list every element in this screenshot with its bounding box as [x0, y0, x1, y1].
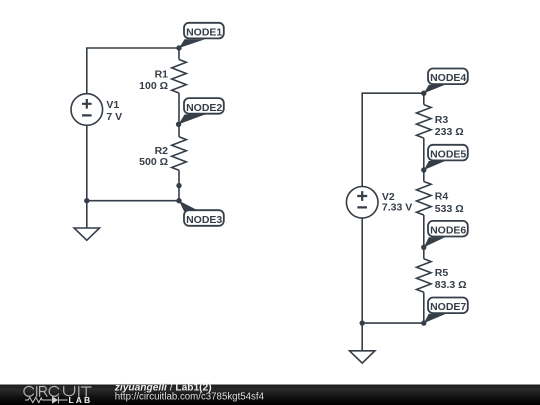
svg-text:NODE1: NODE1: [186, 26, 222, 38]
svg-text:7.33 V: 7.33 V: [382, 202, 412, 214]
svg-text:R3: R3: [435, 114, 449, 126]
svg-text:V1: V1: [106, 99, 119, 111]
svg-text:7 V: 7 V: [106, 111, 122, 123]
svg-text:R4: R4: [435, 191, 449, 203]
svg-text:100 Ω: 100 Ω: [139, 80, 168, 92]
svg-text:233 Ω: 233 Ω: [435, 126, 464, 138]
svg-text:83.3 Ω: 83.3 Ω: [435, 279, 467, 291]
svg-text:NODE6: NODE6: [430, 225, 466, 237]
svg-text:533 Ω: 533 Ω: [435, 203, 464, 215]
svg-text:NODE2: NODE2: [186, 102, 222, 114]
svg-text:NODE5: NODE5: [430, 148, 466, 160]
svg-text:R5: R5: [435, 267, 449, 279]
svg-text:R1: R1: [155, 68, 169, 80]
svg-text:NODE4: NODE4: [430, 72, 466, 84]
svg-text:LAB: LAB: [69, 395, 93, 405]
svg-text:NODE3: NODE3: [186, 214, 222, 226]
svg-text:500 Ω: 500 Ω: [139, 156, 168, 168]
svg-text:http://circuitlab.com/c3785kgt: http://circuitlab.com/c3785kgt54sf4: [115, 392, 265, 403]
svg-text:NODE7: NODE7: [430, 301, 466, 313]
